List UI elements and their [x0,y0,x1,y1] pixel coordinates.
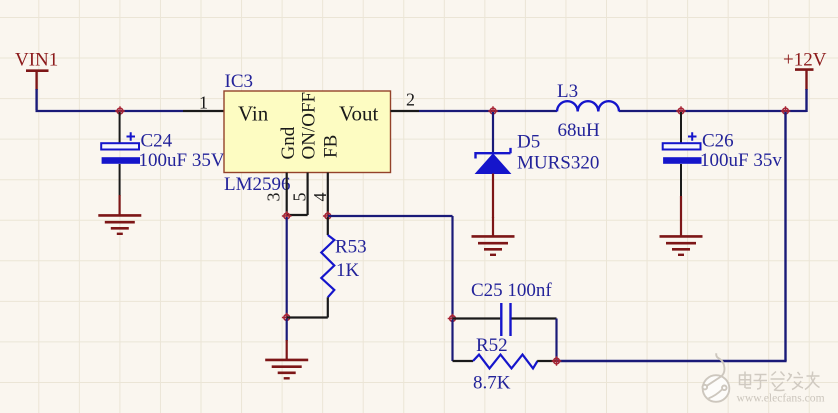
svg-text:ON/OFF: ON/OFF [298,92,319,160]
svg-text:FB: FB [320,135,341,158]
wire: node to ground [286,319,288,342]
ground under C24 [98,195,141,234]
svg-text:Gnd: Gnd [278,126,299,159]
pin 4 of IC3 (FB) stub [327,173,329,217]
svg-text:Vin: Vin [238,102,269,126]
capacitor C26 [663,131,783,172]
wire: VIN1 corner to IC pin1 [36,110,184,112]
wire: pin3 node down to lower node [286,217,288,318]
watermark text 电子发烧友 [740,372,820,391]
pin 1 of IC3 (wire stub) [183,110,224,112]
junction at C26 node [676,106,686,116]
inductor L3 [557,81,619,141]
svg-text:LM2596: LM2596 [224,174,291,195]
watermark logo circle [703,353,730,402]
svg-text:5: 5 [290,193,310,202]
power port VIN1 [15,50,58,111]
junction at pin3/pin5 node [282,211,292,221]
svg-text:1: 1 [199,93,208,113]
resistor R52 [453,335,557,394]
svg-text:4: 4 [310,193,330,202]
wire: junction down to C24 [119,112,121,143]
wire: bottom run from R52 node to right branch [557,360,787,362]
wire: D5 anode to ground [492,174,494,219]
wire: C25 node down to R52 [451,320,453,362]
pin 2 of IC3 (wire stub) [391,110,420,112]
ground under D5 [472,217,515,255]
svg-text:VIN1: VIN1 [15,50,58,71]
pin 3 of IC3 (Gnd) stub [286,173,288,217]
junction at pin4/FB node [323,211,333,221]
svg-text:MURS320: MURS320 [517,153,599,174]
power port +12V [783,50,827,113]
svg-text:R53: R53 [335,237,367,258]
junction at R52 right node [552,356,562,366]
wire: junction down to C26 [680,112,682,143]
svg-text:C25 100nf: C25 100nf [471,280,552,301]
wire: C24 to ground [119,164,121,196]
svg-text:2: 2 [406,90,415,110]
svg-text:1K: 1K [336,260,360,281]
op-amp/regulator IC3 body [224,71,391,195]
junction at C25 left node [448,314,458,324]
svg-text:C24: C24 [141,131,173,152]
svg-text:Vout: Vout [339,102,378,126]
wire: pin2 to +12V corner [419,110,557,112]
svg-text:8.7K: 8.7K [473,373,511,394]
svg-text:D5: D5 [517,132,540,153]
wire: FB node to right branch [328,215,453,217]
ground under C26 [660,196,703,255]
wire: branch node down right side [784,112,786,361]
svg-text:+12V: +12V [783,50,827,71]
svg-text:3: 3 [263,193,283,202]
svg-text:100uF 35v: 100uF 35v [700,150,782,171]
capacitor C25 [453,280,557,361]
wire: down right branch to C25 node [451,216,453,319]
wire: pin5 jog to pin3 [287,214,308,216]
svg-text:C26: C26 [702,131,734,152]
junction at +12V branch node [781,106,791,116]
resistor R53 [321,217,366,318]
junction at D5 node [488,106,498,116]
junction at R53 bottom node [282,313,292,323]
svg-text:www.elecfans.com: www.elecfans.com [737,392,825,405]
svg-text:L3: L3 [557,81,578,102]
svg-text:68uH: 68uH [558,120,601,141]
diode D5 (schottky, cathode up) [476,132,600,174]
svg-text:R52: R52 [476,335,508,356]
wire: L3 to +12V corner [619,110,807,112]
wire: C26 to ground [680,164,682,197]
wire: R53 bottom jog to pin3 line [287,316,328,318]
wire: junction down to D5 [492,112,494,153]
pin 5 of IC3 (ON/OFF) stub [307,173,309,216]
svg-text:IC3: IC3 [225,71,254,92]
capacitor C24 [101,131,225,172]
ground under pin3 node [265,340,308,378]
junction at C24 node [115,106,125,116]
svg-text:100uF 35V: 100uF 35V [139,150,225,171]
